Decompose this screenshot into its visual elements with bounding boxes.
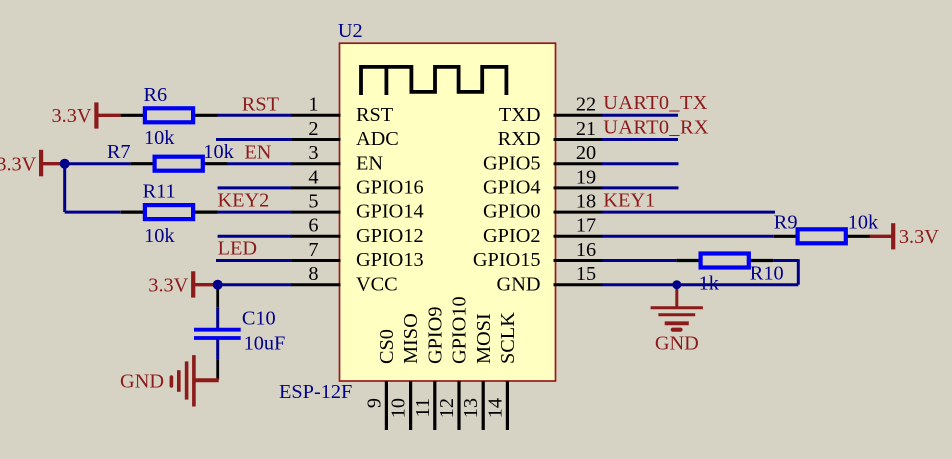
svg-text:KEY2: KEY2 [218,189,270,211]
svg-text:11: 11 [412,398,434,418]
svg-text:2: 2 [308,118,318,140]
svg-text:R6: R6 [144,84,168,106]
svg-text:GPIO13: GPIO13 [356,249,424,271]
svg-text:GPIO14: GPIO14 [356,201,424,223]
svg-text:9: 9 [363,398,385,408]
svg-text:4: 4 [308,166,318,188]
svg-text:TXD: TXD [499,104,541,126]
svg-text:7: 7 [308,239,318,261]
svg-text:GPIO4: GPIO4 [483,177,540,199]
svg-text:GPIO16: GPIO16 [356,177,424,199]
svg-text:22: 22 [576,94,596,116]
svg-text:CS0: CS0 [376,329,398,364]
svg-text:UART0_RX: UART0_RX [603,116,709,138]
svg-text:5: 5 [308,191,318,213]
svg-text:R9: R9 [774,212,798,234]
svg-text:17: 17 [576,215,596,237]
svg-text:3.3V: 3.3V [899,226,939,248]
svg-text:21: 21 [576,118,596,140]
svg-text:15: 15 [576,263,596,285]
svg-text:8: 8 [308,263,318,285]
svg-text:20: 20 [576,142,596,164]
svg-text:10k: 10k [203,141,234,163]
svg-text:MOSI: MOSI [473,313,495,364]
svg-text:UART0_TX: UART0_TX [603,92,708,114]
svg-text:10: 10 [388,398,410,418]
svg-text:GPIO10: GPIO10 [449,296,471,364]
svg-text:R11: R11 [143,181,176,203]
svg-text:18: 18 [576,191,596,213]
svg-text:GPIO2: GPIO2 [483,225,540,247]
svg-text:GPIO5: GPIO5 [483,152,540,174]
svg-text:EN: EN [244,141,271,163]
svg-text:RST: RST [242,94,280,116]
svg-text:SCLK: SCLK [497,312,519,364]
svg-text:12: 12 [436,398,458,418]
svg-text:GPIO12: GPIO12 [356,225,424,247]
svg-text:3.3V: 3.3V [148,274,188,296]
svg-text:1k: 1k [699,272,720,294]
svg-text:16: 16 [576,239,596,261]
svg-text:R7: R7 [107,141,131,163]
svg-text:GND: GND [120,371,164,393]
svg-text:RXD: RXD [498,128,541,150]
svg-text:1: 1 [308,94,318,116]
svg-text:GPIO15: GPIO15 [473,249,541,271]
svg-text:U2: U2 [338,20,363,42]
svg-text:GND: GND [497,273,541,295]
svg-text:10uF: 10uF [244,332,286,354]
svg-text:13: 13 [460,398,482,418]
svg-text:3.3V: 3.3V [52,105,92,127]
svg-text:GPIO9: GPIO9 [424,307,446,364]
svg-text:10k: 10k [144,127,175,149]
svg-text:EN: EN [356,152,383,174]
svg-text:3: 3 [308,142,318,164]
svg-text:GND: GND [655,333,699,355]
svg-text:6: 6 [308,215,318,237]
svg-text:3.3V: 3.3V [0,153,37,175]
svg-text:GPIO0: GPIO0 [483,201,540,223]
svg-text:VCC: VCC [356,273,398,295]
svg-text:ADC: ADC [356,128,399,150]
svg-text:R10: R10 [750,263,784,285]
svg-text:RST: RST [356,104,394,126]
svg-text:10k: 10k [848,212,879,234]
svg-text:ESP-12F: ESP-12F [279,381,352,403]
svg-text:19: 19 [576,166,596,188]
svg-text:14: 14 [484,398,506,418]
svg-text:MISO: MISO [400,313,422,364]
svg-text:C10: C10 [242,307,276,329]
svg-text:KEY1: KEY1 [603,190,655,212]
svg-text:10k: 10k [144,225,175,247]
svg-text:LED: LED [218,238,257,260]
